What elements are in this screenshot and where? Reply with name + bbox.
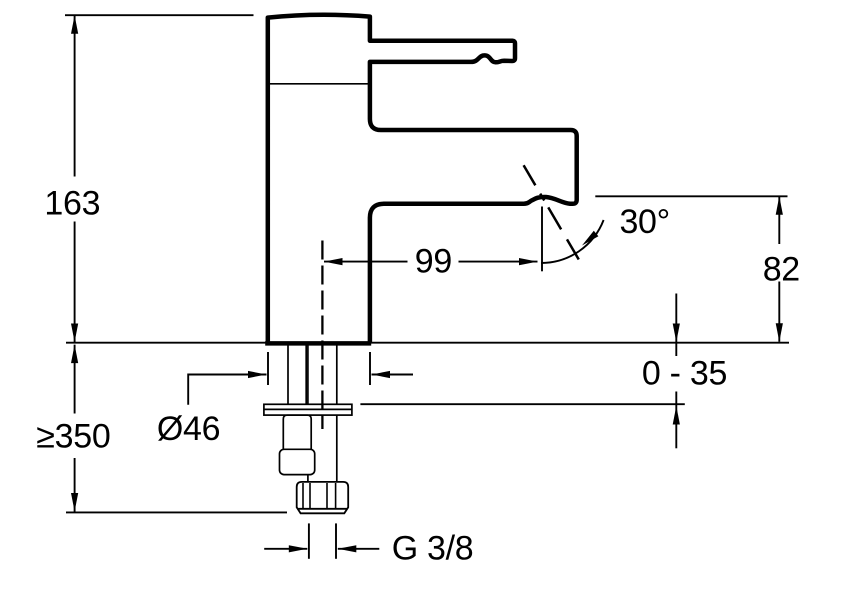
supply stud right edge xyxy=(305,345,307,404)
99 dimension line xyxy=(324,261,538,263)
163 arrowhead down xyxy=(71,324,78,343)
diameter 46 arrowhead right xyxy=(248,371,267,378)
arc arrowhead xyxy=(582,231,598,246)
99 arrowhead left xyxy=(324,258,343,265)
>=350 arrowhead up xyxy=(71,345,78,364)
knurled G3/8 nut xyxy=(297,482,349,513)
spout outlet vertical extension line xyxy=(541,207,543,272)
82 arrowhead up xyxy=(776,196,783,215)
supply stud left edge xyxy=(287,345,289,404)
deck top reference line xyxy=(66,342,789,344)
cap/body separation line xyxy=(270,83,369,85)
163 arrowhead up xyxy=(71,15,78,34)
G3/8 arrowhead right xyxy=(289,545,308,552)
svg-text:99: 99 xyxy=(415,242,452,280)
diameter 46 leader with bend xyxy=(188,375,266,405)
30 degree dashed stream line xyxy=(524,165,580,261)
diameter 46 right dim line xyxy=(372,374,414,376)
faucet body outline (cap, lever handle, body, spout) xyxy=(265,15,577,344)
mounting bolt nut block xyxy=(280,449,315,474)
0-35 upper arrowhead down xyxy=(673,324,680,343)
body dashed centerline xyxy=(321,241,323,430)
163 dimension line xyxy=(74,15,76,342)
shank tube left edge xyxy=(307,345,309,482)
>=350 arrowhead down xyxy=(71,493,78,512)
0-35 lower arrow line xyxy=(675,392,677,449)
G3/8 left dim line xyxy=(264,548,307,550)
svg-text:30°: 30° xyxy=(619,203,670,241)
svg-text:0 - 35: 0 - 35 xyxy=(642,355,727,393)
82 arrowhead down xyxy=(776,323,783,342)
0-35 lower arrowhead up xyxy=(673,406,680,425)
svg-text:Ø46: Ø46 xyxy=(157,410,220,448)
>=350 bottom reference line xyxy=(66,511,287,513)
G3/8 right dim line xyxy=(338,548,380,550)
>=350 dimension line xyxy=(74,345,76,512)
diameter 46 right extension line xyxy=(369,352,371,385)
svg-text:≥350: ≥350 xyxy=(36,418,110,456)
G3/8 arrowhead left xyxy=(338,545,357,552)
0-35 upper arrow line xyxy=(675,294,677,357)
knurl lines on nut xyxy=(303,483,336,509)
svg-text:82: 82 xyxy=(763,251,800,289)
82 dimension line xyxy=(778,196,780,341)
G3/8 left extension line xyxy=(308,523,310,558)
diameter 46 arrowhead left xyxy=(372,371,391,378)
30 degree angle arc xyxy=(541,220,604,263)
82 top reference line xyxy=(595,195,787,197)
top reference line (163) xyxy=(65,14,254,16)
svg-text:G 3/8: G 3/8 xyxy=(392,529,474,567)
G3/8 right extension line xyxy=(335,523,337,558)
mounting bolt cylinder xyxy=(283,415,311,450)
diameter 46 left extension line xyxy=(267,352,269,385)
shank tube right edge xyxy=(336,345,338,482)
faucet base bottom line xyxy=(265,341,371,346)
99 arrowhead right xyxy=(519,258,538,265)
svg-text:163: 163 xyxy=(44,184,100,222)
mounting flange xyxy=(264,404,352,415)
deck bottom reference line xyxy=(360,403,684,405)
